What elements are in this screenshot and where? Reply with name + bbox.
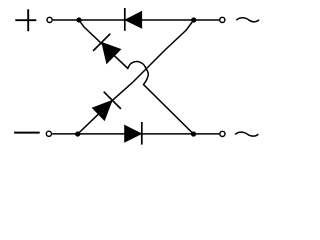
wire top-left (plus terminal to node A) xyxy=(53,19,125,21)
minus terminal symbol (-) xyxy=(14,132,40,134)
terminal circle - (DC minus output) xyxy=(46,131,51,136)
wire diagonal node A to node D with crossover hop xyxy=(79,20,194,134)
diode D4 (lower diagonal, pointing up-right) xyxy=(92,92,121,121)
AC symbol top (~) xyxy=(236,18,259,22)
node D (bottom-right junction) xyxy=(191,131,196,136)
node B (top-right junction) xyxy=(191,17,196,22)
wire bottom-right (diode D2 to node D) xyxy=(142,133,220,135)
node C (bottom-left junction) xyxy=(75,131,80,136)
wire bottom-left (minus terminal to node C) xyxy=(52,133,124,135)
diode D2 (bottom, pointing right) xyxy=(125,122,142,145)
AC symbol bottom (~) xyxy=(235,132,258,136)
wire top-right (diode D1 to node B) xyxy=(142,19,220,21)
diode D3 (upper diagonal, pointing up-left) xyxy=(93,34,121,64)
diode D1 (top, pointing left) xyxy=(125,8,142,31)
terminal circle + (DC plus output) xyxy=(47,17,52,22)
node A (top-left junction) xyxy=(76,17,81,22)
terminal circle AC top xyxy=(220,17,225,22)
terminal circle AC bottom xyxy=(220,131,225,136)
wire diagonal node C to node B xyxy=(78,20,194,134)
plus terminal symbol (+) xyxy=(15,9,36,31)
